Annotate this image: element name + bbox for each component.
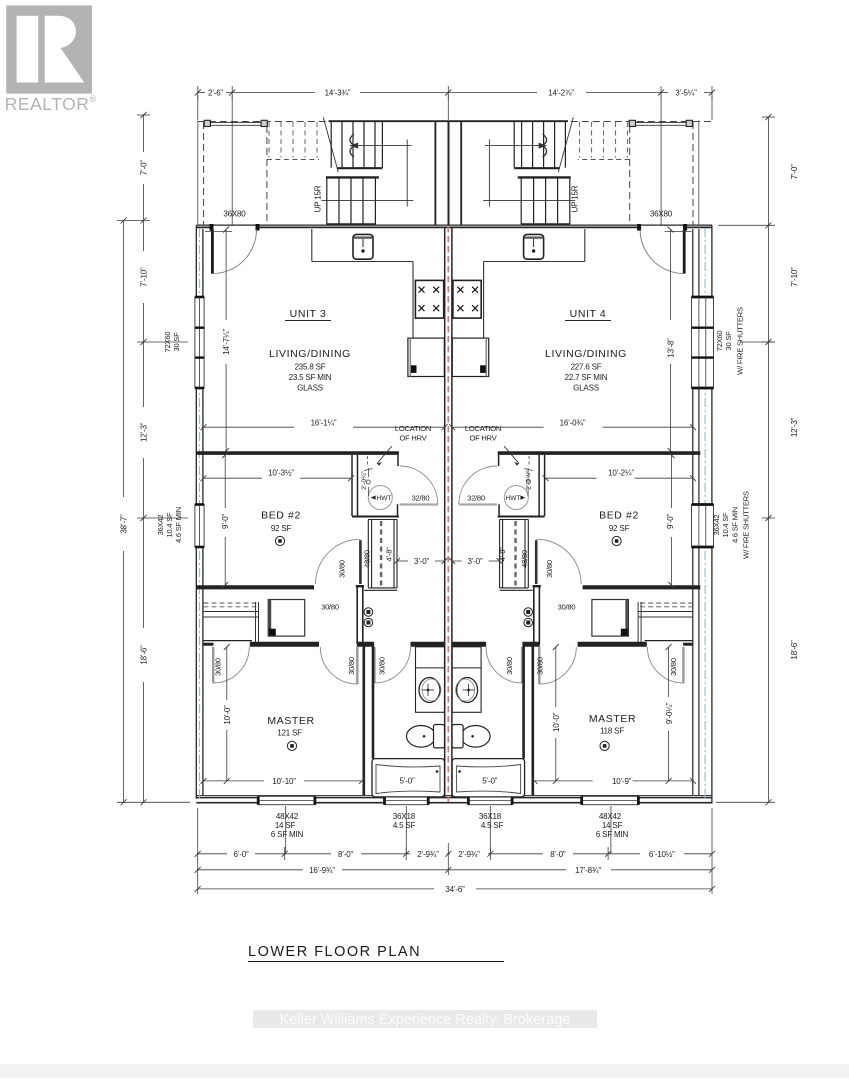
svg-text:121 SF: 121 SF [277, 729, 302, 738]
svg-text:Keller Williams Experience Rea: Keller Williams Experience Realty, Broke… [280, 1012, 571, 1028]
kitchen sink [353, 234, 373, 259]
svg-text:6’-0”: 6’-0” [233, 850, 249, 859]
svg-text:14 SF: 14 SF [602, 821, 623, 830]
watermark [253, 1010, 597, 1028]
svg-text:34’-6”: 34’-6” [445, 885, 465, 894]
room and component text [156, 185, 751, 786]
svg-text:2’-0¼”: 2’-0¼” [361, 471, 368, 489]
bath sink [419, 678, 440, 703]
HWT door 32/80 [400, 503, 438, 505]
svg-text:16’-0¾”: 16’-0¾” [560, 418, 586, 427]
left dimension chains [117, 115, 190, 802]
svg-text:2’-6”: 2’-6” [208, 89, 224, 98]
window 72X60 left wall [195, 297, 204, 388]
bed2 top wall [196, 451, 399, 455]
svg-text:W/ FIRE SHUTTERS: W/ FIRE SHUTTERS [736, 307, 745, 375]
svg-text:118 SF: 118 SF [600, 727, 624, 736]
svg-text:4.5 SF: 4.5 SF [393, 821, 416, 830]
svg-text:®: ® [90, 94, 97, 104]
svg-text:10’-10”: 10’-10” [272, 777, 296, 786]
svg-text:18’-6”: 18’-6” [790, 640, 799, 660]
svg-text:OF HRV: OF HRV [470, 434, 497, 443]
stair break line [323, 117, 338, 172]
left wall fire-separation dash-dot [199, 228, 201, 801]
svg-text:7’-0”: 7’-0” [790, 164, 799, 180]
bottom dimension labels [233, 850, 675, 894]
svg-text:36X42: 36X42 [156, 515, 165, 536]
svg-text:UP 15R: UP 15R [314, 185, 323, 212]
svg-text:10.4 SF: 10.4 SF [721, 512, 730, 537]
upper stair treads [331, 122, 382, 168]
svg-text:6 SF MIN: 6 SF MIN [596, 830, 629, 839]
window 48X42 unit3 [258, 796, 315, 804]
right wall fire-separation dash-dot [704, 228, 706, 801]
svg-text:3’-5¼”: 3’-5¼” [675, 89, 697, 98]
svg-text:10’-0”: 10’-0” [552, 712, 561, 732]
stair enclosure walls [329, 120, 449, 122]
exterior top wall [196, 225, 712, 227]
svg-text:4.6 SF MIN: 4.6 SF MIN [731, 507, 740, 543]
window 36X18 unit3 (tub) [385, 796, 429, 804]
svg-text:5’-0”: 5’-0” [399, 776, 415, 785]
unit3 dim 10-0 vertical [226, 647, 228, 700]
party wall centreline (red dashed) [447, 226, 449, 802]
svg-text:2’-9¾”: 2’-9¾” [417, 850, 439, 859]
top dimension line [198, 86, 712, 99]
svg-text:14’-3¾”: 14’-3¾” [325, 89, 351, 98]
svg-text:30/80: 30/80 [347, 657, 356, 675]
svg-text:36X18: 36X18 [393, 812, 416, 821]
svg-text:30/80: 30/80 [669, 658, 678, 676]
svg-text:4’-8”: 4’-8” [498, 547, 507, 562]
top dimension labels [208, 89, 697, 98]
svg-text:8’-0”: 8’-0” [338, 850, 354, 859]
range/stove [415, 280, 443, 318]
svg-text:6 SF MIN: 6 SF MIN [271, 830, 304, 839]
porch slab edge [197, 121, 199, 226]
svg-text:10’-3½”: 10’-3½” [268, 469, 294, 478]
kitchen counter [312, 229, 413, 338]
svg-text:30 SF: 30 SF [724, 331, 733, 351]
bottom dimension lines [198, 806, 712, 894]
svg-text:4.5 SF: 4.5 SF [481, 821, 504, 830]
svg-text:30/80: 30/80 [536, 657, 545, 675]
svg-text:7’-10”: 7’-10” [140, 267, 149, 287]
svg-text:W/ FIRE SHUTTERS: W/ FIRE SHUTTERS [742, 491, 751, 559]
svg-text:14 SF: 14 SF [275, 821, 296, 830]
svg-text:HWT: HWT [506, 495, 521, 502]
svg-text:48/80: 48/80 [363, 550, 372, 568]
svg-text:30/80: 30/80 [558, 603, 576, 612]
svg-text:OF HRV: OF HRV [400, 434, 427, 443]
master top wall [203, 643, 444, 646]
svg-text:30/80: 30/80 [377, 657, 386, 675]
party wall [445, 121, 452, 798]
svg-text:LOCATION: LOCATION [395, 424, 431, 433]
svg-text:5’-0”: 5’-0” [482, 776, 498, 785]
window 36X18 unit4 (tub) [468, 796, 512, 804]
svg-text:4.6 SF MIN: 4.6 SF MIN [174, 507, 183, 543]
porch dashed line right end [693, 121, 712, 123]
svg-text:BED #2: BED #2 [261, 510, 301, 522]
svg-text:36X18: 36X18 [479, 812, 502, 821]
bed2 bottom wall [196, 585, 314, 589]
window 36X42 right wall [692, 505, 714, 548]
svg-text:48/80: 48/80 [520, 550, 529, 568]
svg-text:30/80: 30/80 [321, 603, 339, 612]
dim 3-0 hall [397, 560, 408, 562]
exterior left wall [196, 226, 203, 799]
bed2 closet [364, 520, 397, 591]
svg-text:16’-9¾”: 16’-9¾” [309, 866, 335, 875]
stair direction arrow [322, 134, 414, 207]
REALTOR logo square [6, 5, 92, 93]
svg-text:30/80: 30/80 [338, 560, 347, 578]
master/bath wall [364, 646, 373, 795]
master door 30/80 (B) [356, 647, 358, 684]
furnace [268, 600, 305, 637]
svg-text:92 SF: 92 SF [609, 524, 630, 533]
svg-text:30/80: 30/80 [505, 657, 514, 675]
svg-text:30/80: 30/80 [545, 560, 554, 578]
dim 9-0 vertical [224, 455, 226, 508]
svg-text:10’-2¼”: 10’-2¼” [608, 469, 634, 478]
svg-text:GLASS: GLASS [573, 384, 599, 393]
svg-text:7’-0”: 7’-0” [140, 160, 149, 176]
unit4 dim 9-0 vertical [668, 647, 670, 697]
svg-text:23.5 SF MIN: 23.5 SF MIN [289, 373, 332, 382]
svg-text:10.4 SF: 10.4 SF [165, 512, 174, 537]
unit4 dim 10-0 vertical [555, 647, 557, 707]
HWT small dim [368, 468, 370, 477]
window 72X60 right wall [692, 297, 714, 388]
svg-text:3’-0”: 3’-0” [414, 557, 430, 566]
svg-text:LIVING/DINING: LIVING/DINING [269, 348, 351, 360]
toilet [407, 726, 436, 748]
svg-text:12’-3”: 12’-3” [790, 417, 799, 437]
svg-text:227.6 SF: 227.6 SF [571, 363, 602, 372]
svg-text:BED #2: BED #2 [599, 510, 639, 522]
bathtub [372, 759, 445, 797]
svg-text:REALTOR: REALTOR [5, 94, 90, 114]
svg-text:4’-8”: 4’-8” [385, 547, 394, 562]
dim 10-10 master horizontal [204, 780, 265, 782]
HWT tank [368, 486, 392, 510]
svg-text:LOCATION: LOCATION [465, 424, 501, 433]
left dimension labels [120, 160, 149, 665]
unit interior linework (unit 3) [196, 117, 448, 796]
svg-text:72X60: 72X60 [715, 331, 724, 352]
svg-text:30/80: 30/80 [214, 658, 223, 676]
dim 16ft horizontal [204, 426, 445, 428]
svg-text:72X60: 72X60 [163, 332, 172, 353]
svg-text:235.8 SF: 235.8 SF [295, 363, 326, 372]
svg-text:GLASS: GLASS [297, 384, 323, 393]
right dimension chain [716, 117, 775, 802]
svg-text:9’-0”: 9’-0” [666, 513, 675, 529]
svg-text:12’-3”: 12’-3” [140, 422, 149, 442]
svg-text:8’-0”: 8’-0” [550, 850, 566, 859]
svg-text:6’-10½”: 6’-10½” [649, 850, 675, 859]
svg-text:MASTER: MASTER [267, 715, 314, 727]
dim 10-3 horizontal [204, 477, 263, 479]
svg-text:LIVING/DINING: LIVING/DINING [545, 348, 627, 360]
svg-text:9’-0¼”: 9’-0¼” [665, 702, 674, 724]
closet door 30/80 (A) [212, 647, 214, 683]
svg-text:14’-7¼”: 14’-7¼” [222, 329, 231, 355]
svg-text:48X42: 48X42 [276, 812, 299, 821]
svg-text:UP 15R: UP 15R [570, 185, 579, 212]
vanity [412, 644, 444, 712]
svg-text:17’-8¾”: 17’-8¾” [575, 866, 601, 875]
svg-text:32/80: 32/80 [467, 494, 485, 503]
window 36X42 left wall [195, 505, 204, 548]
svg-text:13’-8”: 13’-8” [667, 338, 676, 358]
hall/bath separation wall [356, 585, 364, 587]
svg-text:UNIT 3: UNIT 3 [290, 308, 327, 320]
exterior right wall (fire wall) [693, 225, 712, 803]
svg-text:9’-0”: 9’-0” [221, 513, 230, 529]
svg-text:48X42: 48X42 [599, 812, 622, 821]
svg-text:MASTER: MASTER [589, 713, 636, 725]
svg-text:7’-10”: 7’-10” [790, 267, 799, 287]
svg-text:18’-6”: 18’-6” [140, 645, 149, 665]
svg-text:10’-9”: 10’-9” [612, 777, 632, 786]
svg-text:UNIT 4: UNIT 4 [570, 308, 607, 320]
svg-text:30 SF: 30 SF [172, 332, 181, 352]
svg-text:92 SF: 92 SF [271, 524, 292, 533]
svg-text:10’-0”: 10’-0” [223, 705, 232, 725]
svg-text:2’-0¼”: 2’-0¼” [526, 471, 533, 489]
svg-text:36X42: 36X42 [712, 515, 721, 536]
svg-text:22.7 SF MIN: 22.7 SF MIN [565, 373, 608, 382]
svg-text:36X80: 36X80 [650, 210, 673, 219]
stair landing edge [326, 176, 379, 178]
svg-text:LOWER FLOOR PLAN: LOWER FLOOR PLAN [248, 944, 421, 960]
master outlet [287, 741, 296, 750]
overhead stair treads (dashed) [267, 122, 319, 160]
hall outlets [364, 608, 373, 617]
dim 14ft vertical [205, 230, 232, 232]
porch posts [204, 120, 210, 126]
window 48X42 unit4 [582, 796, 639, 804]
bed2 door 30/80 [359, 540, 362, 584]
porch beam [210, 122, 261, 124]
svg-text:HWT: HWT [377, 495, 392, 502]
svg-text:16’-1¼”: 16’-1¼” [311, 418, 337, 427]
entry door 36X80 [210, 224, 214, 231]
svg-text:14’-2⅞”: 14’-2⅞” [548, 89, 574, 98]
bed2 outlet [275, 536, 284, 545]
svg-text:32/80: 32/80 [412, 494, 430, 503]
porch outline dashed [198, 122, 444, 226]
understair closet [204, 603, 259, 607]
svg-text:38’-7”: 38’-7” [120, 514, 129, 534]
lower stair treads [327, 178, 376, 224]
REALTOR wordmark [5, 94, 97, 114]
svg-text:3’-0”: 3’-0” [467, 557, 483, 566]
svg-text:2’-9¾”: 2’-9¾” [458, 850, 480, 859]
window schedule labels [271, 812, 629, 839]
HWT closet walls [352, 455, 399, 517]
svg-text:36X80: 36X80 [223, 210, 246, 219]
bath door 30/80 [373, 647, 375, 683]
exterior bottom wall [196, 795, 712, 802]
refrigerator [408, 338, 444, 376]
